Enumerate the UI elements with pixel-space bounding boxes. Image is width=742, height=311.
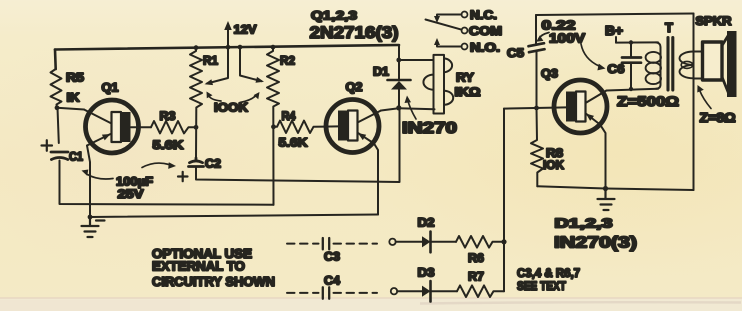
svg-text:5.6K: 5.6K [279, 136, 308, 150]
capacitor C1 [51, 152, 68, 160]
node 12V rail junction [226, 45, 231, 50]
svg-text:Q1: Q1 [102, 81, 119, 95]
svg-text:Q3: Q3 [541, 67, 558, 81]
capacitor C2 [189, 158, 204, 167]
svg-text:C3: C3 [324, 250, 340, 264]
wire D3 to R7 [431, 290, 458, 292]
capacitor C5 [529, 43, 545, 52]
svg-text:IN270: IN270 [402, 120, 457, 137]
svg-text:R7: R7 [468, 270, 484, 284]
wire right vertical speaker line [693, 14, 695, 191]
svg-text:N.C.: N.C. [470, 8, 497, 22]
svg-text:C4: C4 [324, 274, 340, 288]
capacitor C1 plus sign [42, 140, 53, 151]
capacitor C6 [630, 43, 632, 57]
node emitter ground junction [603, 186, 608, 191]
wire B+ rail to transformer primary top [616, 41, 658, 43]
svg-text:12V: 12V [234, 23, 257, 37]
wire rail down to C5 [535, 15, 537, 44]
wire node to relay bottom [399, 108, 435, 109]
svg-text:IN270(3): IN270(3) [554, 235, 637, 252]
relay contact COM armature [462, 28, 468, 34]
wire down to D1 [398, 60, 400, 80]
node R5-C1-collector junction [55, 105, 60, 110]
wire Q3 base into bar [555, 106, 567, 108]
svg-text:R1: R1 [203, 54, 218, 68]
capacitor C4 dashed external [287, 292, 319, 294]
diode D1 [388, 79, 411, 82]
resistor R3 [151, 121, 196, 133]
svg-text:EXTERNAL TO: EXTERNAL TO [152, 259, 245, 274]
wire Q3 base [504, 108, 555, 109]
wire 12V top rail [55, 45, 399, 50]
svg-text:IKΩ: IKΩ [455, 85, 481, 99]
svg-text:COM: COM [469, 24, 502, 38]
svg-text:R6: R6 [468, 251, 484, 265]
svg-text:100V: 100V [549, 31, 585, 46]
svg-text:SEE TEXT: SEE TEXT [517, 281, 566, 293]
transistor Q2 [326, 100, 379, 153]
node R1-R3-C2 junction [194, 125, 199, 130]
svg-text:B+: B+ [605, 23, 623, 38]
svg-text:Q2: Q2 [346, 80, 363, 94]
ground symbol right [598, 189, 615, 211]
wire R8 bottom to ground junction [537, 186, 605, 188]
node C6 bottom junction [629, 87, 633, 91]
transformer T core [668, 38, 673, 91]
node wiper2 rail junction [238, 45, 243, 50]
node R2-R4 junction [271, 124, 276, 129]
arrow 100K to R2 [240, 96, 256, 103]
wire R2 wiper from rail [240, 47, 262, 81]
capacitor C2 plus sign [178, 172, 188, 181]
node R2 top [271, 45, 276, 50]
diode D2 [422, 236, 431, 247]
svg-text:Q1,2,3: Q1,2,3 [311, 9, 357, 23]
resistor R8 [531, 108, 543, 186]
wire to relay top [399, 59, 434, 61]
svg-text:R5: R5 [66, 71, 84, 85]
node D1-relay-collector junction [396, 105, 401, 110]
resistor R6 [456, 236, 504, 248]
svg-text:R4: R4 [282, 109, 296, 123]
relay contact N.C. [462, 12, 468, 18]
wire Q1 base to R3 [131, 126, 151, 128]
svg-text:2N2716(3): 2N2716(3) [310, 23, 399, 42]
wire Q3 emitter down to ground [600, 125, 606, 189]
node R6 junction [501, 239, 506, 244]
svg-text:CIRCUITRY SHOWN: CIRCUITRY SHOWN [152, 274, 275, 289]
terminal D2 input [389, 239, 395, 245]
wire output top rail [536, 14, 694, 16]
speaker SPKR [703, 42, 723, 80]
resistor R5 [51, 69, 62, 108]
svg-text:R3: R3 [160, 109, 176, 123]
resistor R2 potentiometer [267, 47, 279, 205]
node C6 top junction [629, 40, 633, 44]
svg-text:C3,4 & R6,7: C3,4 & R6,7 [517, 268, 580, 280]
node R1 top [194, 45, 199, 50]
capacitor C3 dashed external [287, 243, 319, 245]
wire D2 to R6 [431, 241, 457, 243]
terminal D3 input [391, 288, 397, 294]
svg-text:T: T [665, 20, 673, 35]
wire ground rail left [90, 215, 378, 218]
svg-text:SPKR: SPKR [696, 14, 732, 28]
wire terminal to D3 [397, 290, 422, 292]
wire R1 wiper from rail [207, 47, 228, 83]
resistor R7 [457, 285, 504, 297]
node relay feed junction [396, 58, 401, 63]
svg-text:D1: D1 [373, 65, 389, 79]
svg-text:C6: C6 [608, 62, 625, 76]
svg-text:5.6K: 5.6K [153, 138, 184, 152]
wire junction down to C1 [58, 108, 59, 143]
transistor Q3 [554, 80, 607, 133]
svg-text:D1,2,3: D1,2,3 [555, 216, 613, 231]
wire secondary to speaker stubs [694, 52, 703, 79]
wire Q3 collector to transformer [607, 89, 659, 91]
svg-text:R2: R2 [280, 54, 295, 68]
wire rail corner down to D1 node [398, 45, 400, 60]
svg-text:Z=8Ω: Z=8Ω [700, 110, 736, 125]
arrow 100K to R1 [209, 96, 222, 102]
power 12V arrow [227, 27, 229, 47]
svg-text:D2: D2 [418, 216, 435, 230]
svg-text:25V: 25V [118, 187, 144, 201]
wire Q2 collector to D1 node [381, 108, 399, 110]
svg-text:IOK: IOK [543, 158, 564, 172]
ground symbol left [82, 217, 99, 237]
wire C2 bottom right to Q2 collector node [196, 108, 400, 182]
wire terminal to D2 [396, 241, 422, 243]
relay RY coil [434, 55, 445, 114]
wire junction to Q1 collector [57, 108, 84, 110]
svg-text:RY: RY [456, 71, 474, 85]
wire Q1 emitter down to ground rail [87, 146, 90, 218]
node Q1 emitter ground junction [88, 215, 93, 220]
transformer T primary [656, 42, 661, 88]
relay contact N.O. [462, 44, 468, 50]
svg-text:C2: C2 [205, 157, 221, 171]
wire Q2 emitter down to ground rail [374, 144, 378, 215]
wire ground rail to speaker line [606, 189, 694, 191]
wire rail left corner down to R5 [54, 50, 57, 70]
resistor R1 potentiometer [190, 48, 202, 159]
diode D3 [422, 286, 431, 297]
wire C1 bottom down and right to R2 bottom node [60, 161, 274, 205]
resistor R4 [274, 121, 325, 133]
svg-text:Z=500Ω: Z=500Ω [617, 93, 679, 109]
wire optional feed vertical [503, 109, 505, 292]
transistor Q1 [86, 100, 139, 153]
wire Q2 base from R4 [324, 125, 338, 127]
svg-text:C5: C5 [507, 46, 524, 60]
svg-text:N.O.: N.O. [470, 41, 500, 55]
svg-text:IK: IK [67, 91, 80, 105]
transformer T secondary [680, 52, 694, 79]
svg-text:D3: D3 [418, 266, 435, 280]
node C5-R8-base junction [534, 106, 539, 111]
svg-text:C1: C1 [69, 150, 83, 164]
